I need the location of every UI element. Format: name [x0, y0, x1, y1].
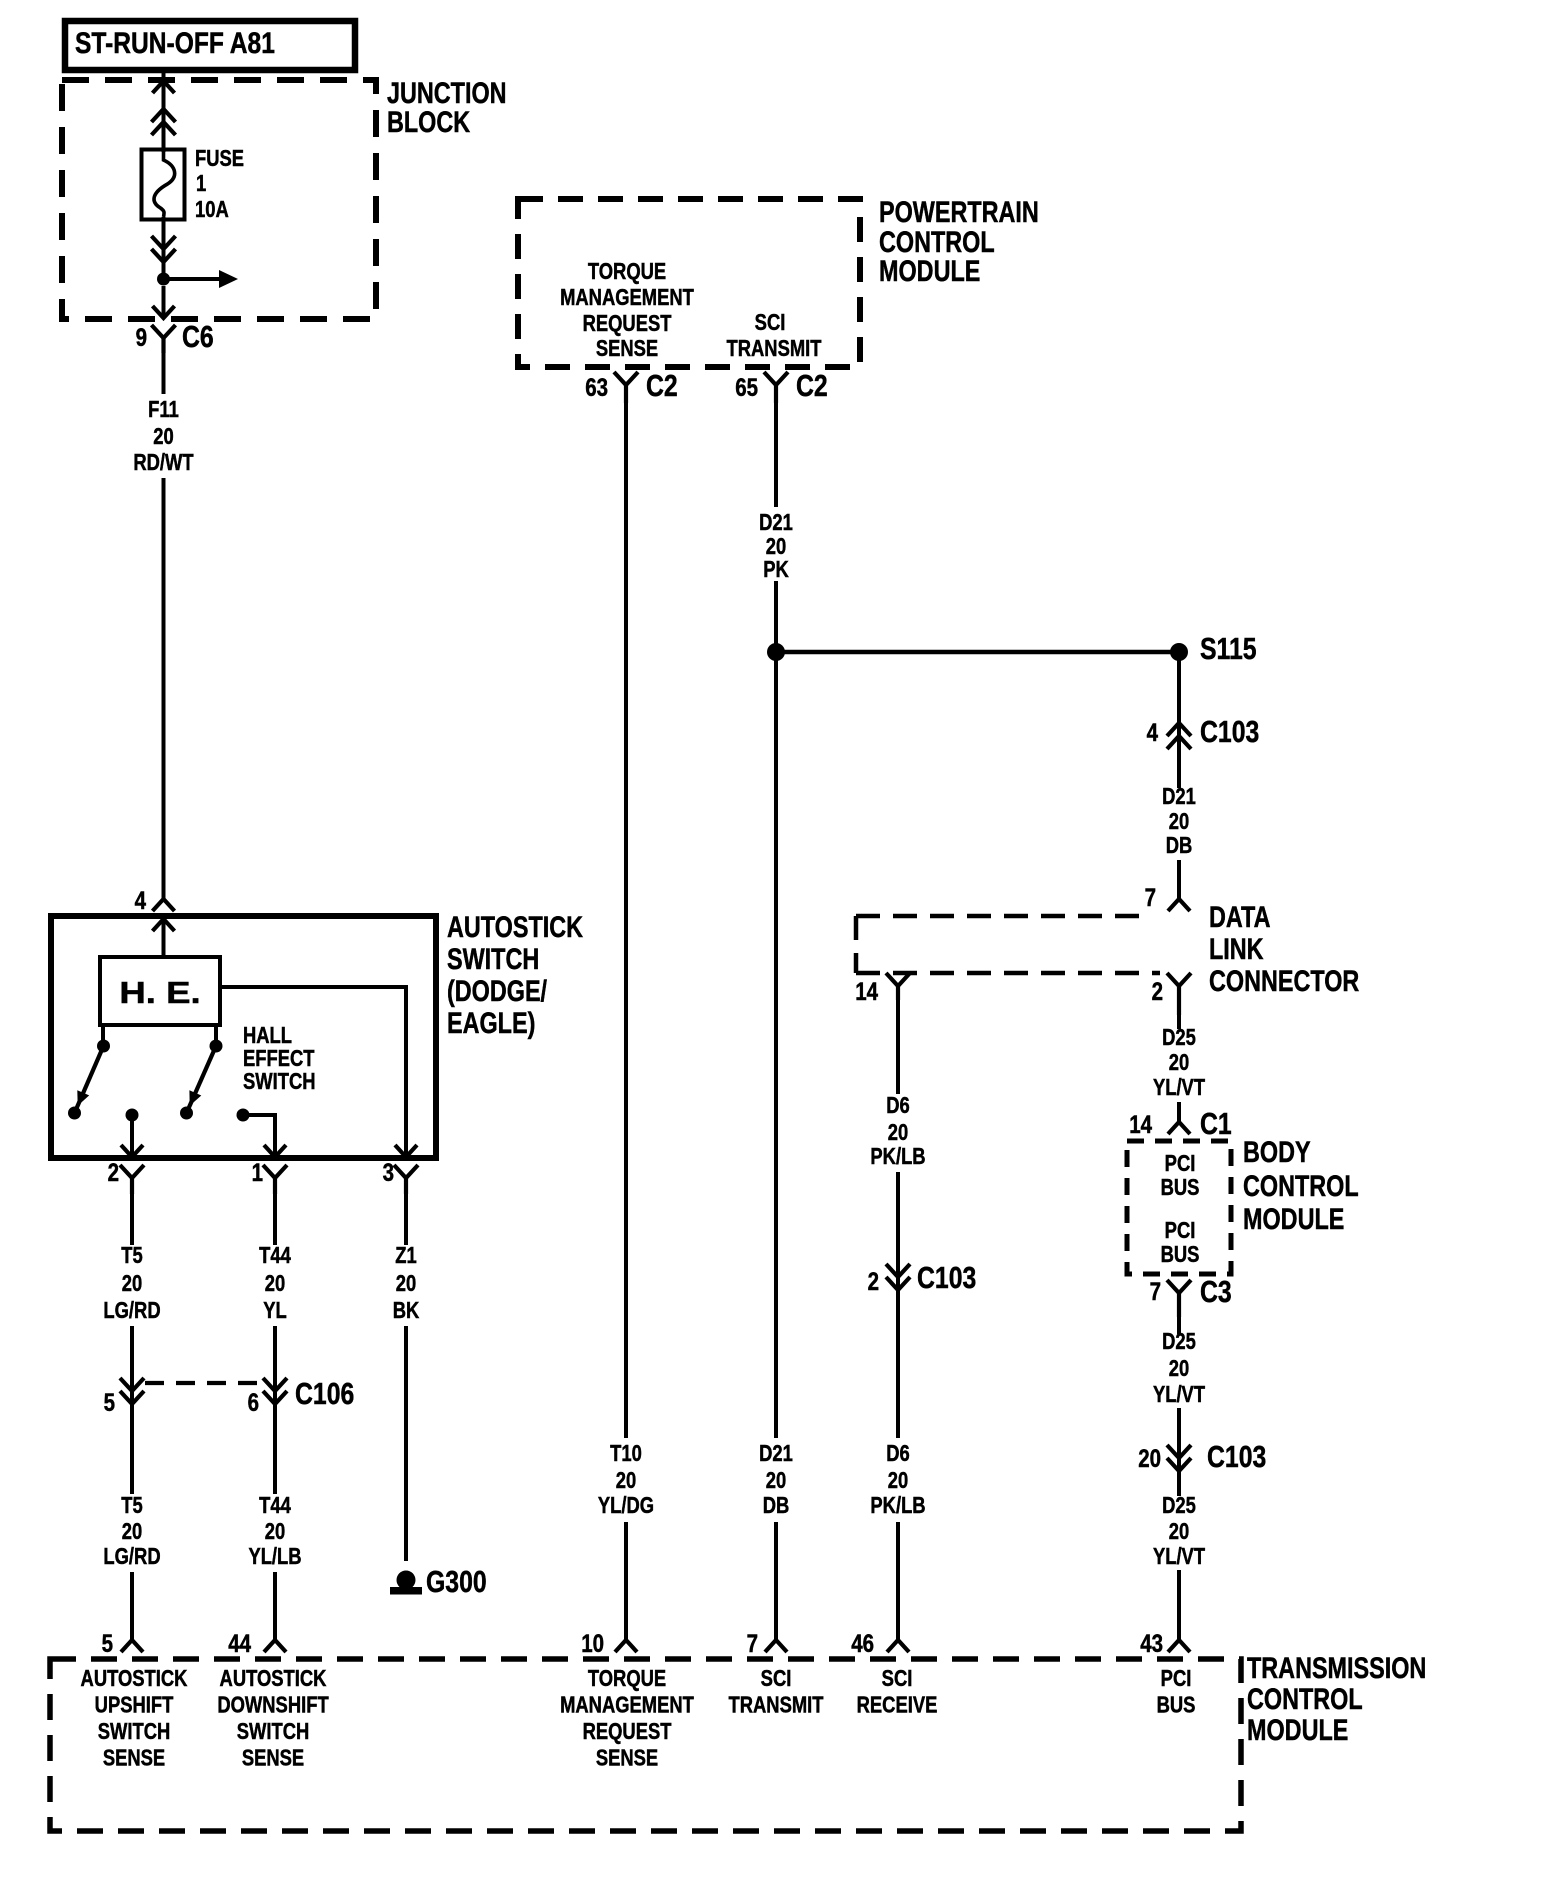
- svg-text:65: 65: [735, 373, 758, 401]
- svg-text:S115: S115: [1200, 631, 1257, 665]
- DLC pin 7 fork: [1168, 899, 1190, 911]
- connector designator C6: [182, 319, 214, 353]
- svg-text:5: 5: [104, 1388, 116, 1416]
- connector C103 pin 20 chevrons: [1167, 1445, 1191, 1458]
- svg-text:F11: F11: [148, 397, 179, 422]
- svg-text:MODULE: MODULE: [879, 254, 980, 287]
- svg-text:2: 2: [108, 1158, 119, 1186]
- svg-text:7: 7: [1150, 1277, 1161, 1305]
- svg-text:6: 6: [248, 1388, 259, 1416]
- TCM autostick upshift switch sense label: [81, 1666, 188, 1691]
- wire label D21 20 PK: [759, 510, 793, 535]
- wire Z1 to ground: [404, 1326, 408, 1561]
- svg-text:1: 1: [196, 171, 206, 196]
- connector C6 pin 9 fork: [152, 325, 176, 338]
- svg-text:T5: T5: [121, 1243, 142, 1268]
- svg-text:PCI: PCI: [1165, 1151, 1196, 1176]
- svg-text:20: 20: [153, 424, 173, 449]
- connector C106 pin 5 chevrons: [120, 1378, 144, 1391]
- junction dot in junction block: [157, 273, 170, 286]
- wire label D25 20 YL/VT lower: [1162, 1493, 1196, 1518]
- wire F11 down to autostick switch pin 4: [162, 478, 166, 899]
- dashed tie line of connector C106: [145, 1381, 262, 1385]
- ground designator G300: [426, 1564, 487, 1598]
- wire label D25 20 YL/VT: [1162, 1025, 1196, 1050]
- PCM pin 63 fork connector C2: [614, 372, 638, 385]
- wire D6 to TCM pin 46: [896, 1522, 900, 1640]
- svg-text:PK: PK: [763, 557, 789, 582]
- svg-text:1: 1: [252, 1158, 264, 1186]
- arrow up at junction block top: [153, 81, 175, 93]
- svg-text:TORQUE: TORQUE: [588, 259, 666, 284]
- right switch blade: [187, 1046, 217, 1113]
- svg-text:TRANSMIT: TRANSMIT: [729, 1693, 824, 1718]
- svg-text:MODULE: MODULE: [1247, 1713, 1348, 1746]
- wire C106 to label T5 lower: [130, 1404, 134, 1494]
- svg-text:H. E.: H. E.: [119, 976, 200, 1011]
- svg-text:EAGLE): EAGLE): [447, 1006, 535, 1039]
- svg-text:D6: D6: [886, 1093, 910, 1118]
- svg-text:T44: T44: [259, 1493, 291, 1518]
- svg-text:D25: D25: [1162, 1025, 1196, 1050]
- wire label D6 20 PK/LB lower: [886, 1441, 910, 1466]
- pin 4 fork at autostick switch: [153, 899, 175, 911]
- wire T10 from PCM pin 63 down: [624, 403, 628, 1438]
- hall effect element H.E. box: [100, 957, 220, 1025]
- svg-text:20: 20: [766, 1468, 786, 1493]
- svg-text:BUS: BUS: [1157, 1693, 1196, 1718]
- wire to splice S115: [776, 650, 1179, 655]
- svg-text:C1: C1: [1200, 1106, 1232, 1140]
- svg-text:44: 44: [228, 1629, 251, 1657]
- svg-text:AUTOSTICK: AUTOSTICK: [220, 1666, 327, 1691]
- wire left contact to pin 2: [130, 1115, 134, 1157]
- splice designator S115: [1200, 631, 1257, 665]
- fuse box ST-RUN-OFF A81 label box: [65, 21, 355, 70]
- arrow down at junction block exit: [153, 306, 175, 318]
- wire D6 down to label: [896, 1290, 900, 1438]
- svg-text:2: 2: [868, 1267, 879, 1295]
- TCM sci transmit label: [761, 1666, 792, 1691]
- junction block dashed outline: [62, 80, 376, 319]
- svg-text:SCI: SCI: [761, 1666, 792, 1691]
- hall effect switch label: [243, 1023, 292, 1048]
- BCM pin 7 fork connector C3: [1167, 1280, 1191, 1293]
- svg-text:4: 4: [135, 886, 147, 914]
- in-line connector chevrons below fuse: [152, 236, 176, 249]
- TCM pin 46 fork: [887, 1640, 909, 1652]
- svg-text:RD/WT: RD/WT: [133, 450, 194, 475]
- svg-text:20: 20: [1138, 1444, 1161, 1472]
- svg-text:SWITCH: SWITCH: [237, 1719, 310, 1744]
- wire T44 to TCM pin 44: [273, 1572, 277, 1640]
- wire label T5 20 LG/RD lower: [121, 1493, 142, 1518]
- svg-text:C2: C2: [796, 368, 828, 402]
- PCM sci transmit label: [755, 310, 786, 335]
- TCM pin 10 fork: [615, 1640, 637, 1652]
- svg-text:20: 20: [1169, 1050, 1189, 1075]
- wire label F11 20 RD/WT: [148, 397, 179, 422]
- body control module dashed outline: [1127, 1141, 1231, 1274]
- svg-text:SWITCH: SWITCH: [98, 1719, 171, 1744]
- wire fuse to junction dot: [162, 217, 166, 276]
- svg-text:43: 43: [1140, 1629, 1163, 1657]
- ground G300 symbol: [397, 1571, 416, 1590]
- svg-text:5: 5: [102, 1629, 114, 1657]
- svg-text:SENSE: SENSE: [103, 1746, 165, 1771]
- svg-text:MODULE: MODULE: [1243, 1202, 1344, 1235]
- svg-text:D25: D25: [1162, 1493, 1196, 1518]
- svg-text:DB: DB: [1166, 833, 1193, 858]
- svg-text:D25: D25: [1162, 1329, 1196, 1354]
- wire D6 from DLC pin 14: [896, 1000, 900, 1094]
- svg-text:C3: C3: [1200, 1274, 1232, 1308]
- TCM sci receive label: [882, 1666, 913, 1691]
- wire D21 from PCM pin 65: [774, 403, 778, 507]
- svg-text:PK/LB: PK/LB: [870, 1144, 925, 1169]
- pin number 9: [136, 323, 147, 351]
- wire D25 below BCM: [1177, 1317, 1181, 1334]
- TCM pci bus label: [1161, 1666, 1192, 1691]
- wire pin2 to label T5: [130, 1194, 134, 1245]
- svg-text:7: 7: [1145, 883, 1156, 911]
- data link connector name label: [1209, 900, 1270, 933]
- autostick switch name label: [447, 910, 584, 943]
- arrow down at box bottom pin 2: [121, 1145, 143, 1157]
- svg-text:RECEIVE: RECEIVE: [857, 1693, 938, 1718]
- wire label D21 20 DB: [1162, 784, 1196, 809]
- svg-text:20: 20: [888, 1468, 908, 1493]
- transmission control module name label: [1247, 1651, 1426, 1684]
- svg-text:D21: D21: [759, 510, 793, 535]
- wire D21 to splice S115 and down: [774, 581, 778, 1438]
- svg-text:PCI: PCI: [1165, 1218, 1196, 1243]
- svg-text:POWERTRAIN: POWERTRAIN: [879, 195, 1039, 228]
- svg-text:D6: D6: [886, 1441, 910, 1466]
- svg-text:SCI: SCI: [882, 1666, 913, 1691]
- fuse F1 10A: [142, 150, 185, 220]
- svg-text:C103: C103: [1200, 714, 1259, 748]
- splice S115 dot: [1170, 643, 1188, 661]
- svg-text:SCI: SCI: [755, 310, 786, 335]
- wire label T5 20 LG/RD: [121, 1243, 142, 1268]
- svg-text:TORQUE: TORQUE: [588, 1666, 666, 1691]
- pin 3 fork below autostick: [394, 1165, 418, 1178]
- svg-text:BK: BK: [393, 1298, 420, 1323]
- svg-text:D21: D21: [759, 1441, 793, 1466]
- svg-text:C6: C6: [182, 319, 214, 353]
- svg-text:SWITCH: SWITCH: [243, 1069, 316, 1094]
- svg-text:CONNECTOR: CONNECTOR: [1209, 964, 1359, 997]
- wire pin1 to label T44: [273, 1194, 277, 1245]
- body control module name label: [1243, 1135, 1311, 1168]
- svg-text:PCI: PCI: [1161, 1666, 1192, 1691]
- svg-text:DB: DB: [763, 1493, 790, 1518]
- svg-text:REQUEST: REQUEST: [583, 1719, 672, 1744]
- svg-text:20: 20: [888, 1120, 908, 1145]
- left switch pivot stub and dot: [101, 1025, 105, 1042]
- svg-text:FUSE: FUSE: [195, 146, 244, 171]
- svg-text:BUS: BUS: [1161, 1175, 1200, 1200]
- svg-text:3: 3: [383, 1158, 394, 1186]
- svg-text:T10: T10: [610, 1441, 642, 1466]
- svg-text:CONTROL: CONTROL: [1247, 1682, 1363, 1715]
- wire T5 to TCM pin 5: [130, 1572, 134, 1640]
- wire D6 to connector C103 pin 2: [896, 1172, 900, 1290]
- BCM pci bus labels: [1165, 1151, 1196, 1176]
- wire T5 to connector C106: [130, 1326, 134, 1404]
- wire S115 to connector C103 pin 4: [1177, 652, 1181, 788]
- svg-text:G300: G300: [426, 1564, 487, 1598]
- wire label T44 20 YL: [259, 1243, 291, 1268]
- autostick switch box: [51, 916, 436, 1158]
- svg-text:10: 10: [581, 1629, 604, 1657]
- BCM pin 14 fork connector C1: [1168, 1122, 1190, 1134]
- TCM pin 7 fork: [765, 1640, 787, 1652]
- PCM torque management request sense label: [588, 259, 666, 284]
- TCM pin 5 fork: [121, 1640, 143, 1652]
- wire T10 to TCM pin 10: [624, 1522, 628, 1640]
- pin 2 fork below autostick: [120, 1165, 144, 1178]
- right switch contact dot: [237, 1109, 250, 1122]
- wire T44 to connector C106: [273, 1326, 277, 1404]
- svg-text:7: 7: [747, 1629, 758, 1657]
- wire pin3 to label Z1: [404, 1194, 408, 1245]
- svg-text:2: 2: [1152, 977, 1163, 1005]
- connector designator C106: [295, 1376, 354, 1410]
- arrow down at box bottom pin 3: [395, 1145, 417, 1157]
- wire label T10 20 YL/DG: [610, 1441, 642, 1466]
- svg-text:10A: 10A: [195, 197, 229, 222]
- svg-text:9: 9: [136, 323, 147, 351]
- svg-text:HALL: HALL: [243, 1023, 292, 1048]
- svg-text:Z1: Z1: [395, 1243, 416, 1268]
- wire into H.E. box: [162, 919, 166, 957]
- svg-text:C106: C106: [295, 1376, 354, 1410]
- wire D25 from DLC pin 2: [1177, 1015, 1181, 1029]
- left switch contact dot: [126, 1109, 139, 1122]
- left switch blade: [75, 1046, 104, 1113]
- fuse value label FUSE 1 10A: [195, 146, 244, 171]
- svg-text:C103: C103: [917, 1260, 976, 1294]
- svg-text:C103: C103: [1207, 1439, 1266, 1473]
- svg-text:ST-RUN-OFF A81: ST-RUN-OFF A81: [75, 26, 275, 60]
- branch wire with arrow to other circuits: [164, 277, 221, 281]
- powertrain control module name label: [879, 195, 1039, 228]
- svg-text:YL/DG: YL/DG: [598, 1493, 654, 1518]
- splice junction dot: [767, 643, 785, 661]
- in-line connector chevrons above fuse: [152, 109, 176, 122]
- wire D25 to BCM pin 14: [1177, 1102, 1181, 1122]
- wire D25 to TCM pin 43: [1177, 1570, 1181, 1640]
- wire D25 below C103: [1177, 1471, 1181, 1496]
- svg-text:YL/VT: YL/VT: [1153, 1544, 1205, 1569]
- svg-text:63: 63: [585, 373, 608, 401]
- svg-text:T44: T44: [259, 1243, 291, 1268]
- svg-text:EFFECT: EFFECT: [243, 1046, 315, 1071]
- wire C6 to label F11: [162, 353, 166, 394]
- TCM pin 43 fork: [1168, 1640, 1190, 1652]
- svg-text:20: 20: [1169, 809, 1189, 834]
- svg-text:(DODGE/: (DODGE/: [447, 974, 548, 1007]
- right switch pivot stub and dot: [214, 1025, 218, 1042]
- svg-text:DOWNSHIFT: DOWNSHIFT: [217, 1693, 329, 1718]
- wire label D25 20 YL/VT middle: [1162, 1329, 1196, 1354]
- TCM torque management request sense label: [588, 1666, 666, 1691]
- svg-text:LINK: LINK: [1209, 932, 1264, 965]
- TCM pin 44 fork: [264, 1640, 286, 1652]
- svg-text:D21: D21: [1162, 784, 1196, 809]
- svg-text:MANAGEMENT: MANAGEMENT: [560, 285, 694, 310]
- svg-text:20: 20: [265, 1271, 285, 1296]
- svg-text:LG/RD: LG/RD: [103, 1298, 160, 1323]
- svg-text:CONTROL: CONTROL: [1243, 1169, 1359, 1202]
- svg-text:20: 20: [122, 1271, 142, 1296]
- svg-text:YL/VT: YL/VT: [1153, 1075, 1205, 1100]
- svg-text:AUTOSTICK: AUTOSTICK: [81, 1666, 188, 1691]
- wire D25 to connector C103 pin 20: [1177, 1408, 1181, 1471]
- svg-text:20: 20: [1169, 1356, 1189, 1381]
- svg-text:YL: YL: [263, 1298, 287, 1323]
- svg-text:SENSE: SENSE: [596, 1746, 658, 1771]
- svg-text:PK/LB: PK/LB: [870, 1493, 925, 1518]
- connector C103 pin 4 chevrons: [1167, 723, 1191, 736]
- DLC pin 14 fork: [886, 973, 910, 986]
- connector C106 pin 6 chevrons: [263, 1378, 287, 1391]
- svg-text:UPSHIFT: UPSHIFT: [95, 1693, 174, 1718]
- svg-text:YL/LB: YL/LB: [248, 1544, 301, 1569]
- wire C106 to label T44 lower: [273, 1404, 277, 1494]
- data link connector dashed outline: [856, 914, 1145, 919]
- svg-text:20: 20: [265, 1519, 285, 1544]
- TCM autostick downshift switch sense label: [220, 1666, 327, 1691]
- svg-text:46: 46: [851, 1629, 874, 1657]
- svg-text:LG/RD: LG/RD: [103, 1544, 160, 1569]
- wire label D21 20 DB lower: [759, 1441, 793, 1466]
- wire D21 to TCM pin 7: [774, 1522, 778, 1640]
- pin 1 fork below autostick: [263, 1165, 287, 1178]
- svg-text:4: 4: [1147, 718, 1159, 746]
- wire right contact to pin 1: [243, 1115, 275, 1157]
- svg-text:20: 20: [616, 1468, 636, 1493]
- svg-text:SWITCH: SWITCH: [447, 942, 539, 975]
- svg-text:TRANSMISSION: TRANSMISSION: [1247, 1651, 1426, 1684]
- svg-text:20: 20: [1169, 1519, 1189, 1544]
- wire label T44 20 YL/LB: [259, 1493, 291, 1518]
- wire label Z1 20 BK: [395, 1243, 416, 1268]
- DLC pin 2 fork: [1167, 973, 1191, 986]
- svg-text:TRANSMIT: TRANSMIT: [727, 336, 822, 361]
- connector C103 pin 2 chevrons: [886, 1264, 910, 1277]
- powertrain control module dashed outline: [518, 199, 860, 367]
- svg-text:20: 20: [766, 534, 786, 559]
- svg-text:DATA: DATA: [1209, 900, 1270, 933]
- arrow up inside autostick box top: [153, 919, 175, 931]
- pin number 4: [135, 886, 147, 914]
- wire junction dot to connector C6: [162, 286, 166, 318]
- svg-text:C2: C2: [646, 368, 678, 402]
- svg-text:BUS: BUS: [1161, 1242, 1200, 1267]
- svg-text:AUTOSTICK: AUTOSTICK: [447, 910, 584, 943]
- svg-text:14: 14: [855, 977, 878, 1005]
- wire D21 DB to data link connector pin 7: [1177, 860, 1181, 899]
- svg-text:BODY: BODY: [1243, 1135, 1311, 1168]
- svg-text:REQUEST: REQUEST: [583, 311, 672, 336]
- svg-text:SENSE: SENSE: [596, 336, 658, 361]
- svg-text:14: 14: [1129, 1110, 1152, 1138]
- wire label D6 20 PK/LB: [886, 1093, 910, 1118]
- svg-text:T5: T5: [121, 1493, 142, 1518]
- wire H.E. to pin 3: [220, 987, 406, 1157]
- arrow down at box bottom pin 1: [264, 1145, 286, 1157]
- svg-text:SENSE: SENSE: [242, 1746, 304, 1771]
- svg-text:MANAGEMENT: MANAGEMENT: [560, 1693, 694, 1718]
- svg-text:BLOCK: BLOCK: [387, 105, 471, 138]
- svg-text:YL/VT: YL/VT: [1153, 1382, 1205, 1407]
- svg-text:20: 20: [396, 1271, 416, 1296]
- PCM pin 65 fork connector C2: [764, 372, 788, 385]
- junction block name label: [387, 76, 507, 109]
- svg-text:20: 20: [122, 1519, 142, 1544]
- wire from ST-RUN-OFF A81 into junction block: [162, 73, 166, 152]
- transmission control module dashed outline: [50, 1659, 1241, 1831]
